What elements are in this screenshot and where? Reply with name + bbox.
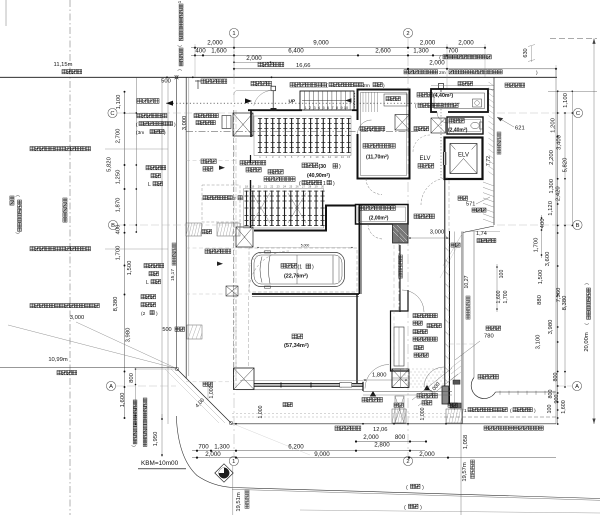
svg-text:6,400: 6,400	[288, 48, 304, 55]
svg-text:10: 10	[344, 106, 348, 110]
svg-text:(2,00m2): (2,00m2)	[369, 215, 389, 221]
svg-text:2: 2	[309, 106, 311, 110]
east dim row line y=91.3	[548, 90, 597, 92]
planting label at boundary jog	[451, 243, 460, 247]
bicycle racks group 2 (13 bars)	[244, 191, 324, 227]
svg-text:3,000: 3,000	[70, 315, 85, 321]
svg-text:800: 800	[553, 373, 559, 382]
svg-text:(3m: (3m	[136, 130, 144, 136]
east planting label	[458, 196, 468, 200]
svg-text:630: 630	[523, 48, 529, 57]
column X-box (butterfly) left of toilet	[431, 118, 446, 133]
car park entrance label + arrow	[205, 249, 231, 254]
svg-text:700: 700	[448, 48, 459, 55]
windbreak room west wall with mailbox recess	[391, 290, 410, 371]
fence post base blob	[271, 108, 277, 111]
svg-text:A: A	[575, 384, 579, 390]
south dashed helper lines under entrance	[232, 413, 460, 415]
top dimension line row3 y=68.8 boundary 16.66	[234, 68, 556, 70]
left note: distance from road boundary point	[30, 304, 99, 308]
svg-text:1,600: 1,600	[561, 400, 567, 414]
east neighbour boundary double line lower x=462	[461, 232, 463, 424]
stair step numbers	[304, 106, 348, 110]
road centre line vertical text	[63, 198, 67, 222]
fence gate swing arc	[254, 90, 272, 105]
svg-text:(30: (30	[319, 164, 327, 170]
grid row B helper line left	[118, 224, 186, 226]
wall: top main wall y=110	[248, 109, 302, 111]
management room labels	[417, 93, 432, 98]
svg-text:1,058: 1,058	[463, 435, 469, 450]
svg-text:780: 780	[484, 334, 494, 340]
svg-text:1,700: 1,700	[116, 245, 122, 260]
svg-text:5,820: 5,820	[562, 157, 568, 172]
management room door opening + arc	[437, 111, 448, 114]
benchmark symbol (rotated square + circle)	[215, 464, 233, 482]
svg-text:2: 2	[233, 196, 236, 202]
east boundary jog at B	[463, 226, 494, 233]
south road: faint lower line	[300, 510, 600, 513]
svg-text:800: 800	[395, 434, 406, 441]
business storage room walls (2.00m2)	[356, 205, 409, 225]
north-east neighbour boundary dashed + 20m extent line	[550, 37, 597, 39]
corner planting label on diagonal	[203, 382, 213, 386]
planting hatch strip beside corridor	[451, 360, 461, 380]
road: top-left sidewalk edge stub	[5, 0, 7, 26]
mailbox unit tall rect	[394, 327, 404, 366]
ELV cab + X	[450, 144, 477, 174]
east boundary bump arc near A (fence gate)	[471, 378, 495, 399]
svg-text:3,000: 3,000	[182, 116, 188, 131]
svg-text:2: 2	[406, 31, 409, 37]
svg-text:ELV: ELV	[420, 156, 431, 162]
svg-text:C: C	[576, 111, 580, 117]
porch dark wall block right	[442, 386, 449, 404]
porch column X-box left	[392, 369, 409, 388]
svg-text:1,870: 1,870	[116, 197, 122, 212]
fence post symbols on north wall	[271, 86, 276, 91]
svg-text:1,250: 1,250	[116, 169, 122, 184]
svg-text:2,000: 2,000	[363, 434, 379, 441]
bottom dim line y=457.6 (2,000 / 9,000 / 2,000)	[192, 457, 556, 459]
ELV door marks	[444, 152, 446, 165]
grid bubble C right	[573, 108, 582, 117]
garbage room opening west	[356, 120, 359, 134]
svg-text:10,99m: 10,99m	[48, 357, 68, 363]
booster pump labels	[240, 161, 266, 166]
business storage labels	[359, 206, 395, 211]
garbage room interior stripes (chute)	[363, 92, 378, 112]
svg-text:8,380: 8,380	[562, 295, 568, 310]
west road edge horizontal line y=367.6	[0, 367, 177, 369]
grid row A helper line right	[556, 385, 572, 387]
grid bubble 2 bottom	[403, 456, 412, 465]
svg-text:400: 400	[540, 218, 546, 229]
corridor label (kyouyou rouka)	[414, 214, 435, 219]
grid bubble 1 bottom	[229, 456, 238, 465]
svg-text:900: 900	[554, 395, 560, 404]
bottom dim line y=447.8 (700 1,300 6,200 2,800)	[192, 450, 425, 452]
dog-run edge line above management room	[431, 85, 494, 87]
left gutter labels: usui haisui SUS grating x2	[30, 147, 91, 151]
left dim line for 1,950	[161, 414, 163, 457]
wall: west wall segments of bicycle room	[250, 110, 252, 137]
svg-text:100: 100	[547, 405, 553, 414]
planting label east of apartment entrance	[0, 0, 1, 1]
svg-text:100: 100	[499, 270, 505, 279]
svg-text:621: 621	[515, 126, 525, 132]
wall: bicycle area south step wall	[254, 206, 355, 231]
svg-text:8: 8	[336, 106, 338, 110]
wall: parking south wall y=294	[252, 293, 359, 295]
top dimension line row2 y=55.4	[191, 54, 486, 56]
stair treads	[305, 91, 351, 110]
svg-text:): )	[312, 265, 314, 271]
east garden line x=454.3	[453, 232, 455, 411]
svg-text:500: 500	[161, 79, 171, 85]
windbreak room labels stack	[413, 314, 437, 318]
corridor right wall double with hatch	[444, 179, 446, 404]
fence line to east + label	[496, 391, 557, 393]
store entry recess walls	[362, 382, 364, 391]
svg-text:12,06: 12,06	[373, 427, 388, 433]
road name vertical text (kukaku-douro 110)	[10, 196, 14, 205]
label south road boundary 12,06	[335, 426, 361, 431]
svg-text:19,57m: 19,57m	[462, 462, 468, 482]
car (plan view)	[252, 251, 345, 288]
svg-text:8,380: 8,380	[113, 296, 119, 311]
garbage room walls (11.70m2)	[358, 90, 410, 179]
svg-text:UP: UP	[289, 98, 296, 104]
west boundary vertical text 15,17	[172, 243, 176, 265]
ensho line dashed through racks	[186, 131, 420, 133]
svg-text:10,27: 10,27	[464, 275, 470, 288]
svg-text:400: 400	[195, 48, 206, 55]
electric switchboard label + box	[194, 114, 218, 118]
svg-text:20,00m: 20,00m	[584, 332, 590, 352]
road: west site boundary double line	[185, 77, 187, 378]
east dim tier line x=557.7	[557, 91, 559, 424]
wall: store east wall x=360	[359, 205, 361, 294]
street corner curb curve	[176, 416, 232, 488]
svg-text:2,000: 2,000	[429, 60, 445, 67]
dark bar south of right planter	[450, 403, 461, 408]
escape route dotted vertical to ELV hall	[440, 106, 442, 178]
shop bicycle parking note (tenpo-you chuurinjou 2-dai)	[141, 295, 156, 299]
svg-text:3,100: 3,100	[536, 334, 542, 349]
svg-text:9,000: 9,000	[313, 39, 329, 46]
column X-box west top	[233, 113, 253, 136]
svg-text:1,100: 1,100	[563, 92, 569, 107]
bottom dim line y=441.5 (2,000 800)	[356, 441, 426, 443]
svg-text:11,15m: 11,15m	[54, 62, 73, 68]
label inuhashiri + 780 right middle	[486, 326, 501, 330]
svg-text:1: 1	[464, 408, 467, 414]
svg-text:1,000: 1,000	[209, 385, 215, 398]
grid line 1 vertical x=234	[233, 38, 235, 459]
grid line 2 vertical x=408	[407, 38, 409, 459]
interior vertical helper dashed right of store	[393, 245, 395, 374]
outdoor escape stair box	[300, 91, 354, 110]
road: west roadside gutter lines	[161, 77, 163, 420]
svg-text:1,300: 1,300	[549, 178, 555, 193]
management room walls (4.40m2)	[431, 89, 488, 112]
bicycle racks group 1 (15 bars)	[258, 118, 351, 153]
entrance gutter labels upper (deiriguchi-you / road / L-gata-mizo)	[146, 166, 166, 170]
svg-text:6: 6	[327, 106, 329, 110]
east right margin line x=556	[555, 69, 557, 424]
fence label top	[251, 81, 272, 86]
entrance gutter labels lower	[144, 264, 164, 268]
svg-text:(2,40m2): (2,40m2)	[448, 127, 468, 133]
rack numbers row 2	[245, 185, 324, 189]
grid bubble B left	[108, 220, 117, 229]
svg-text:(1: (1	[298, 265, 303, 271]
stair escape note text above	[290, 83, 326, 88]
svg-text:1,300: 1,300	[214, 444, 230, 451]
parking space dashed boundary	[249, 248, 357, 292]
dim 1,800 at store entry	[363, 379, 408, 381]
svg-text:2,000: 2,000	[458, 39, 474, 46]
east dim tier line x=572.3	[571, 91, 573, 225]
bicycle entrance label + arrow	[201, 159, 216, 164]
svg-text:1,000: 1,000	[420, 407, 426, 420]
svg-text:1,950: 1,950	[153, 431, 159, 446]
store interior dashed column lines	[235, 294, 237, 381]
fence line west of post	[234, 90, 271, 95]
toilet labels	[449, 119, 464, 124]
svg-text:1,000: 1,000	[258, 405, 264, 418]
grid bubble 1 top	[229, 28, 238, 37]
svg-text:2,000: 2,000	[205, 451, 221, 458]
svg-text:2,600: 2,600	[375, 48, 391, 55]
top dimension line row1 y=47.7	[191, 47, 486, 49]
svg-text:880: 880	[537, 294, 543, 305]
top note line2 (kankiguchi wa kaidan...)	[404, 70, 438, 74]
svg-text:2,800: 2,800	[374, 442, 390, 449]
column X-box garbage NE	[395, 115, 410, 131]
small pier box at parking SW	[226, 286, 238, 296]
stair right dotted edge	[354, 93, 356, 109]
svg-text:4: 4	[318, 106, 320, 110]
toilet room walls (2.40m2)	[447, 117, 483, 134]
west 800 dim helper line	[135, 368, 177, 370]
toilet fixture	[471, 122, 479, 128]
grid row C helper line left	[118, 112, 233, 114]
svg-text:1: 1	[323, 181, 326, 187]
svg-text:1,800: 1,800	[372, 373, 387, 379]
svg-text:): )	[339, 164, 341, 170]
svg-text:3,600: 3,600	[545, 251, 551, 266]
escape route label (hinan keiro)	[137, 99, 159, 104]
svg-text:19,51m: 19,51m	[236, 492, 242, 512]
garbage spot note (gomi-dashi basho...)	[137, 114, 167, 118]
label rinchi-kyokaisen 16.66	[258, 62, 284, 67]
planting label + hatched planters west	[202, 230, 212, 234]
svg-text:2,000: 2,000	[246, 55, 262, 62]
store entrance label + triangle	[370, 391, 376, 396]
column X-box store SW	[234, 368, 255, 390]
svg-text:1,600: 1,600	[120, 392, 126, 407]
corner helper diagonals	[171, 369, 225, 423]
corridor centre dashed line	[448, 180, 450, 392]
store south window wall (glazing)	[240, 379, 363, 381]
porch dark sill right	[453, 380, 460, 384]
svg-text:2,420: 2,420	[555, 186, 561, 201]
grid bubble A right	[572, 381, 581, 390]
svg-text:700: 700	[198, 444, 209, 451]
wall-position dashed line south-east + label	[444, 416, 557, 418]
svg-text:3,980: 3,980	[126, 327, 132, 342]
svg-text:1: 1	[304, 106, 306, 110]
top vertical ticks at grid and ends	[194, 44, 196, 77]
management room sink fixture	[473, 99, 482, 107]
entrance door arcs at windbreak	[402, 290, 424, 312]
store outer sill line	[236, 389, 363, 391]
svg-text:2,000: 2,000	[207, 39, 223, 46]
east parallel line x=474 (dog-run edge)	[473, 232, 475, 378]
left dim connector at C row	[125, 112, 137, 114]
apartment entrance label + triangle	[424, 385, 430, 390]
planting label left of store entrance	[283, 403, 292, 407]
svg-text:1,74: 1,74	[476, 231, 487, 237]
planter hatch at parking entrance south	[187, 325, 202, 339]
ELV shaft walls	[445, 138, 483, 180]
bicycle rack area outline lower	[244, 189, 324, 229]
east neighbour boundary line upper x=494	[493, 77, 495, 225]
svg-text:3,000: 3,000	[430, 230, 445, 236]
svg-text:2,200: 2,200	[549, 149, 555, 164]
escape route dotted line + arrows	[166, 102, 460, 104]
svg-text:B: B	[111, 223, 115, 229]
east dim tier line x=565	[564, 113, 566, 387]
svg-text:500: 500	[162, 327, 171, 333]
store room labels (57.34 m2)	[292, 334, 303, 339]
grid bubble 2 top	[403, 28, 412, 37]
porch paving dotted texture	[405, 369, 444, 388]
svg-text:L: L	[146, 280, 149, 286]
svg-text:1,700: 1,700	[503, 290, 509, 303]
svg-text:1,300: 1,300	[413, 48, 429, 55]
grid row C helper line right	[497, 112, 572, 114]
svg-text:3,980: 3,980	[548, 319, 554, 334]
svg-text:5,000: 5,000	[301, 244, 310, 248]
grid bubble A left	[106, 381, 115, 390]
svg-text:C: C	[110, 111, 114, 117]
label SUS grating south-east	[484, 426, 543, 430]
left inner dim tier line x=136.3	[135, 77, 137, 232]
svg-text:1,500: 1,500	[538, 269, 544, 284]
svg-text:400: 400	[116, 224, 122, 235]
svg-text:2: 2	[406, 459, 409, 465]
bulletin board label	[414, 127, 429, 131]
boundary corner cut diagonal (177,369)-(231,423)	[177, 369, 231, 423]
business storage door arc	[368, 224, 383, 239]
ensho line vertical label right zone	[399, 255, 403, 278]
jimado box + label	[384, 94, 407, 106]
south porch steps lines	[363, 391, 452, 393]
svg-text:B: B	[576, 223, 580, 229]
grid row B helper line right	[497, 224, 572, 226]
diagonal braces at jog	[443, 234, 462, 266]
svg-text:2,000: 2,000	[419, 451, 435, 458]
diagonal leader to boundary corner labels	[231, 423, 310, 455]
grid bubble C left	[108, 108, 117, 117]
svg-text:1,200: 1,200	[551, 117, 557, 132]
svg-text:3,400: 3,400	[557, 134, 563, 149]
svg-text:2,000: 2,000	[420, 39, 436, 46]
parking entrance swing arcs dashed	[249, 251, 289, 291]
label rinchi-kyokai top right	[505, 83, 525, 87]
stair arrow line + UP	[302, 100, 351, 102]
svg-text:15,17: 15,17	[170, 269, 176, 281]
svg-text:1: 1	[232, 459, 235, 465]
east inner dim helper line x=497	[496, 264, 498, 312]
grid row A helper line left	[116, 385, 176, 387]
garbage room labels	[363, 144, 395, 149]
south road boundary line y=424 (12.06m)	[231, 423, 556, 425]
rack cross marks group 2	[252, 193, 306, 223]
svg-text:571: 571	[466, 202, 475, 208]
column X-box west middle	[236, 227, 253, 247]
electric pole label	[201, 79, 227, 84]
garbage room door arc south	[366, 179, 382, 195]
planting labels + hatched planters at entrance	[394, 403, 403, 407]
svg-text:1,600: 1,600	[211, 48, 227, 55]
south dim dots line y=424 ticks	[235, 423, 237, 425]
svg-text:1,120: 1,120	[548, 200, 554, 215]
grid bubble B right	[573, 220, 582, 229]
svg-text:L: L	[148, 182, 151, 188]
road: west road centre line (dash-dot)	[69, 0, 71, 515]
svg-text:1: 1	[232, 31, 235, 37]
fence tick marks	[499, 391, 501, 395]
road: north site boundary line y=77	[0, 76, 557, 78]
svg-text:800: 800	[129, 372, 135, 383]
svg-text:KBM=10m00: KBM=10m00	[141, 460, 179, 467]
rotated boundary text + 7,72 on east	[497, 132, 501, 154]
svg-text:9,000: 9,000	[314, 451, 330, 458]
svg-text:16,66: 16,66	[296, 63, 311, 69]
bicycle parking labels (30 units)	[302, 163, 318, 168]
bottom-right road width dim line x=461	[460, 424, 462, 515]
parking labels (1 unit / 22.76 m2)	[281, 264, 297, 269]
boundary point x-marker at road line	[175, 75, 179, 79]
top-right inuhashiri hatch strip x=488-494	[489, 82, 495, 176]
svg-text:1,500: 1,500	[127, 260, 133, 275]
dark wall block SE of business storage	[393, 224, 409, 243]
south curb lines to the right	[232, 488, 600, 499]
bicycle rack area outline upper	[254, 116, 351, 156]
joubu top-light labels	[268, 170, 283, 175]
store entrance door arc	[365, 365, 389, 389]
svg-text:7: 7	[331, 106, 333, 110]
ensho line label	[360, 127, 385, 131]
svg-text:5,820: 5,820	[107, 156, 113, 171]
east dim tier line x=541.5 short	[541, 215, 543, 258]
inuhashiri label top right	[458, 82, 473, 86]
svg-text:2m: 2m	[363, 83, 370, 89]
svg-text:1,100: 1,100	[116, 94, 122, 109]
svg-text:ELV: ELV	[458, 153, 469, 159]
ELV hall door arcs dashed	[413, 135, 430, 152]
svg-text:A: A	[109, 384, 113, 390]
left dimension line x=124.5	[124, 92, 126, 418]
svg-text:5: 5	[322, 106, 324, 110]
corridor left wall x=400	[399, 245, 401, 312]
store west inner dashed line	[248, 296, 250, 367]
building west face dashed position line	[233, 110, 235, 390]
